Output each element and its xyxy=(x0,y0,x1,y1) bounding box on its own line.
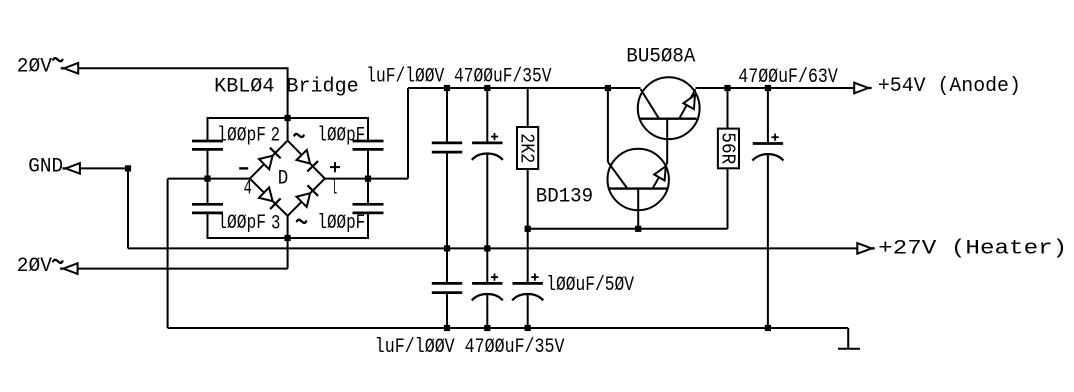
svg-text:lØØuF/5ØV: lØØuF/5ØV xyxy=(546,274,634,297)
svg-text:D: D xyxy=(278,168,289,191)
svg-text:56R: 56R xyxy=(716,132,738,164)
svg-text:4: 4 xyxy=(244,178,252,201)
svg-text:GND: GND xyxy=(28,155,63,178)
svg-text:KBLØ4 Bridge: KBLØ4 Bridge xyxy=(214,75,359,98)
svg-text:lØØpF: lØØpF xyxy=(317,124,365,147)
svg-text:+54V (Anode): +54V (Anode) xyxy=(878,75,1021,98)
svg-text:2: 2 xyxy=(271,125,280,148)
svg-text:lØØpF: lØØpF xyxy=(217,212,266,235)
svg-text:BD139: BD139 xyxy=(536,186,593,209)
svg-text:l: l xyxy=(331,178,337,201)
svg-text:lØØpF: lØØpF xyxy=(217,124,266,147)
svg-text:47ØØuF/63V: 47ØØuF/63V xyxy=(738,66,838,89)
svg-text:luF/lØØV 47ØØuF/35V: luF/lØØV 47ØØuF/35V xyxy=(366,65,551,88)
svg-text:BU5Ø8A: BU5Ø8A xyxy=(626,45,695,68)
svg-text:+27V (Heater): +27V (Heater) xyxy=(878,238,1067,261)
svg-text:lØØpF: lØØpF xyxy=(317,212,365,235)
svg-text:2ØV: 2ØV xyxy=(17,255,52,278)
svg-text:luF/lØØV 47ØØuF/35V: luF/lØØV 47ØØuF/35V xyxy=(375,336,565,359)
svg-text:3: 3 xyxy=(271,212,280,235)
svg-text:2ØV: 2ØV xyxy=(17,55,52,78)
svg-text:2K2: 2K2 xyxy=(516,133,538,163)
